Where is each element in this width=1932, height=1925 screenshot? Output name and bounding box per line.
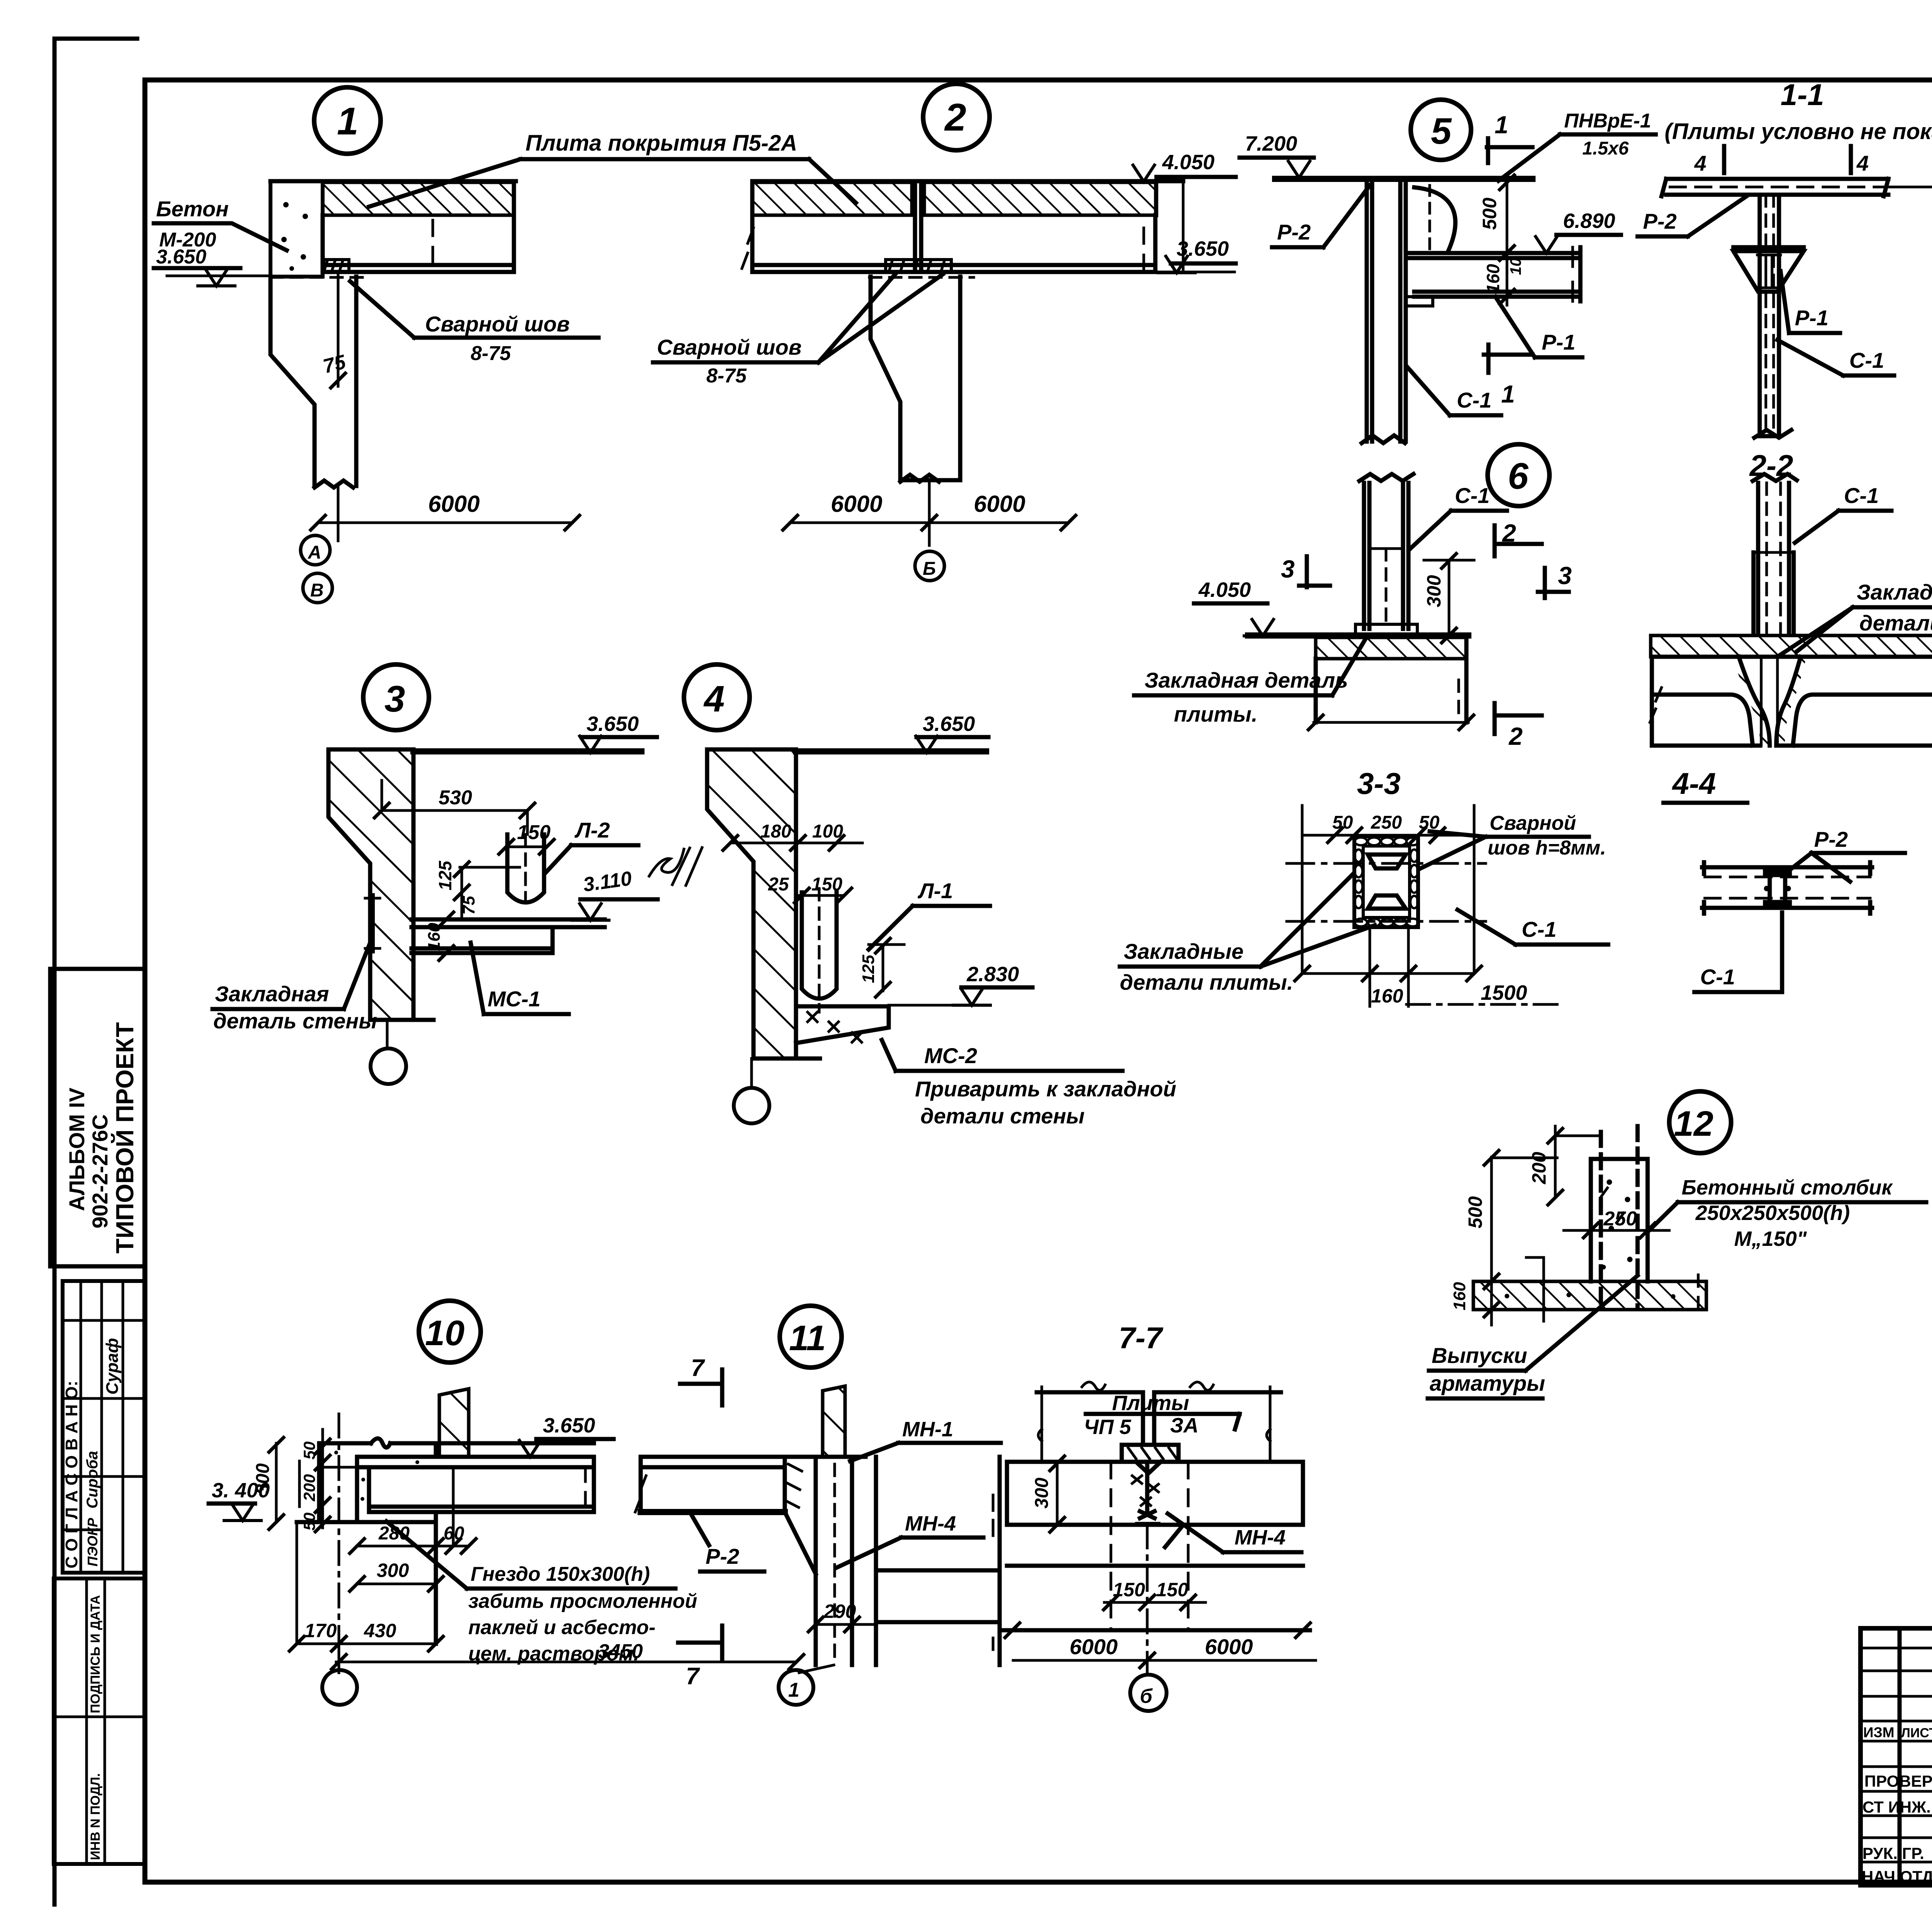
- svg-text:3.650: 3.650: [543, 1414, 595, 1437]
- section 2-2: [1650, 449, 1932, 746]
- svg-text:180: 180: [760, 821, 791, 842]
- extension lines and centerlines: [1302, 805, 1474, 974]
- svg-text:1500: 1500: [1481, 981, 1527, 1004]
- svg-text:160: 160: [425, 923, 444, 951]
- svg-text:АЛЬБОМ IV: АЛЬБОМ IV: [65, 1087, 89, 1211]
- embedded plate on wall face: [369, 896, 375, 950]
- dim 530: [382, 780, 527, 834]
- precast slabs with joint: [1652, 657, 1932, 746]
- slab of detail 1 (hatched): [323, 182, 514, 215]
- section mark 1 lower: [1484, 345, 1532, 373]
- I-beam section at joint: [1765, 869, 1790, 907]
- dim 150: [506, 846, 547, 848]
- column C-1: [1362, 179, 1406, 443]
- svg-text:М„150": М„150": [1734, 1227, 1807, 1250]
- detail circle 3: [363, 664, 429, 730]
- bearing plate: [886, 260, 951, 272]
- svg-text:паклей и асбесто-: паклей и асбесто-: [468, 1616, 655, 1639]
- axis circle left: [338, 1414, 340, 1670]
- svg-text:500: 500: [1464, 1196, 1486, 1228]
- axis circle В: [303, 573, 332, 603]
- svg-text:3: 3: [384, 678, 405, 720]
- svg-text:6000: 6000: [974, 491, 1025, 517]
- svg-text:Закладная деталь: Закладная деталь: [1145, 668, 1348, 692]
- svg-text:4.050: 4.050: [1162, 151, 1214, 174]
- column shoe Р-1 trapezoid: [1733, 251, 1804, 292]
- svg-text:Закладная: Закладная: [215, 982, 329, 1006]
- dim 300: [1424, 560, 1474, 635]
- column С-1: [1359, 474, 1413, 629]
- detail 3: channel at wall, slab support: [213, 664, 702, 1084]
- svg-text:арматуры: арматуры: [1430, 1371, 1545, 1395]
- svg-text:С-1: С-1: [1700, 965, 1735, 989]
- dims 170 430: [297, 1522, 436, 1644]
- svg-text:7: 7: [691, 1355, 705, 1381]
- svg-text:Р-1: Р-1: [1795, 306, 1828, 330]
- svg-text:4.050: 4.050: [1198, 578, 1251, 601]
- svg-text:150: 150: [1156, 1579, 1189, 1600]
- axis circle Б: [915, 551, 944, 581]
- svg-text:ПОДПИСЬ И ДАТА: ПОДПИСЬ И ДАТА: [88, 1595, 103, 1713]
- svg-text:3450: 3450: [598, 1640, 643, 1663]
- section 1-1: [1638, 78, 1932, 438]
- svg-text:Закладные: Закладные: [1124, 939, 1243, 963]
- svg-text:1.5х6: 1.5х6: [1582, 138, 1629, 159]
- svg-text:50: 50: [300, 1441, 318, 1459]
- svg-text:75: 75: [459, 896, 478, 915]
- dim stack 50 200 50: [299, 1429, 323, 1528]
- svg-text:деталь стены: деталь стены: [213, 1009, 377, 1033]
- dim 6000: [318, 486, 572, 541]
- svg-text:Сироба: Сироба: [84, 1451, 101, 1509]
- svg-text:1: 1: [337, 100, 359, 143]
- I-beam web on column top: [915, 181, 921, 270]
- slab top line: [1275, 176, 1532, 182]
- column С-1: [1753, 474, 1797, 634]
- detail 12: concrete post: [1428, 1091, 1926, 1398]
- left sidebar: bottom table: [54, 1578, 145, 1864]
- svg-text:забить просмоленной: забить просмоленной: [468, 1590, 697, 1612]
- svg-text:Л-1: Л-1: [917, 878, 953, 903]
- column C-1 dashed: [1754, 195, 1791, 438]
- concrete wall with taper: [328, 749, 413, 1020]
- svg-text:3: 3: [1281, 555, 1295, 583]
- svg-text:300: 300: [1032, 1478, 1052, 1509]
- dim 3450: [336, 1644, 796, 1673]
- section 4-4: slab joint with beam: [1663, 766, 1905, 992]
- svg-text:500: 500: [1479, 197, 1500, 230]
- svg-text:160: 160: [1450, 1282, 1469, 1310]
- lower slab bands: [1001, 1566, 1310, 1630]
- svg-text:Бетон: Бетон: [156, 197, 229, 221]
- svg-text:2.830: 2.830: [966, 963, 1019, 986]
- section mark 3 right: [1538, 568, 1569, 598]
- svg-text:25: 25: [768, 874, 789, 895]
- left slab: [752, 182, 912, 215]
- svg-text:МН-1: МН-1: [902, 1418, 953, 1441]
- svg-text:(Плиты условно не показаны): (Плиты условно не показаны): [1665, 119, 1932, 144]
- svg-text:2: 2: [944, 96, 966, 139]
- dims 125 75: [460, 867, 520, 919]
- vertical ext lines with breaks: [1038, 1387, 1270, 1462]
- svg-text:Сварной шов: Сварной шов: [425, 312, 570, 336]
- svg-text:6.890: 6.890: [1563, 209, 1615, 233]
- svg-text:РУК. ГР.: РУК. ГР.: [1862, 1844, 1924, 1862]
- slab line continues to level mark: [1888, 186, 1932, 189]
- svg-text:50: 50: [1332, 812, 1353, 833]
- svg-text:7-7: 7-7: [1119, 1321, 1163, 1355]
- svg-text:290: 290: [823, 1600, 856, 1622]
- svg-text:7: 7: [686, 1663, 700, 1690]
- svg-text:6000: 6000: [831, 491, 882, 517]
- svg-text:ПЭОКР: ПЭОКР: [85, 1517, 100, 1567]
- svg-text:3.650: 3.650: [923, 712, 975, 736]
- svg-text:МН-4: МН-4: [1235, 1526, 1286, 1549]
- svg-text:А: А: [308, 542, 321, 563]
- detail circle 10: [419, 1301, 481, 1363]
- svg-text:детали плиты.: детали плиты.: [1859, 611, 1932, 635]
- svg-text:200: 200: [300, 1474, 318, 1502]
- slab band: [1662, 179, 1888, 196]
- anchor МН-4 with welds: [1137, 1462, 1158, 1524]
- svg-text:СТ ИНЖ.: СТ ИНЖ.: [1862, 1798, 1931, 1816]
- dim 160: [438, 911, 455, 928]
- detail circle 4: [684, 664, 750, 730]
- svg-text:1: 1: [1501, 380, 1515, 408]
- svg-text:5: 5: [1431, 110, 1452, 152]
- section 3-3: embedded plate plan: [1120, 766, 1608, 1007]
- svg-text:6000: 6000: [1070, 1634, 1118, 1659]
- svg-text:11: 11: [789, 1318, 826, 1358]
- svg-text:Сварной шов: Сварной шов: [657, 335, 802, 359]
- floor line and slab: [1248, 632, 1468, 639]
- svg-text:плиты.: плиты.: [1174, 702, 1257, 726]
- dim 200: [1555, 1126, 1600, 1198]
- svg-text:300: 300: [1423, 575, 1445, 607]
- svg-text:Плита покрытия П5-2А: Плита покрытия П5-2А: [526, 131, 797, 156]
- svg-text:3: 3: [1558, 562, 1572, 590]
- svg-text:С-1: С-1: [1455, 483, 1490, 508]
- bearing plate weld: [324, 260, 349, 272]
- detail circle 5: [1411, 100, 1471, 160]
- svg-text:Выпуски: Выпуски: [1432, 1343, 1527, 1368]
- dim 50 250 50: [1302, 834, 1474, 837]
- svg-text:6000: 6000: [428, 491, 480, 517]
- svg-text:ПРОВЕР: ПРОВЕР: [1864, 1772, 1932, 1790]
- svg-text:4-4: 4-4: [1672, 766, 1716, 800]
- foundation slab hatched: [1473, 1281, 1706, 1310]
- bottom dim 160: [1302, 927, 1474, 1006]
- svg-text:Б: Б: [923, 559, 936, 579]
- svg-text:4: 4: [703, 678, 724, 720]
- dim 6000 6000: [790, 480, 1068, 545]
- shelf МС-2: [796, 1006, 889, 1043]
- svg-text:430: 430: [364, 1620, 396, 1641]
- svg-text:ЗА: ЗА: [1170, 1414, 1199, 1437]
- dim 500: [1492, 1157, 1557, 1281]
- bottom wall line: [297, 1512, 436, 1644]
- svg-text:ПНВрЕ-1: ПНВрЕ-1: [1564, 110, 1651, 132]
- svg-text:МС-1: МС-1: [488, 987, 541, 1011]
- dim 290: [816, 1623, 874, 1626]
- svg-text:125: 125: [859, 955, 878, 983]
- top wall line with break: [319, 1439, 594, 1448]
- svg-text:4: 4: [1856, 151, 1869, 175]
- detail 1: slab on concrete wall: [154, 87, 856, 603]
- svg-text:ЧП 5: ЧП 5: [1084, 1415, 1131, 1439]
- detail circle 2: [923, 84, 990, 150]
- svg-text:В: В: [310, 580, 324, 601]
- svg-text:1-1: 1-1: [1781, 78, 1824, 112]
- dim 300: [1056, 1462, 1059, 1525]
- detail 4: channel in wall with shelf МС-2: [684, 664, 1176, 1128]
- svg-text:Р-2: Р-2: [1814, 827, 1848, 851]
- svg-text:НАЧ.ОТД: НАЧ.ОТД: [1862, 1867, 1932, 1886]
- svg-text:3.650: 3.650: [587, 712, 639, 736]
- dim 125: [869, 945, 904, 991]
- slab band: [1702, 862, 1872, 914]
- svg-text:С О Г Л А С О В А Н О:: С О Г Л А С О В А Н О:: [62, 1381, 81, 1568]
- rebar outlets: [1601, 1126, 1638, 1308]
- socket verticals: [319, 1443, 436, 1522]
- hatched pier above: [823, 1386, 845, 1457]
- bracket ПНВрЕ-1 curve: [1414, 187, 1455, 251]
- detail 6: column base on slab: [1134, 444, 1572, 750]
- dim 160: [1483, 1301, 1500, 1318]
- svg-text:250: 250: [1371, 812, 1402, 833]
- svg-text:шов h=8мм.: шов h=8мм.: [1488, 837, 1606, 859]
- channel Л-1: [802, 892, 837, 999]
- svg-text:170: 170: [304, 1620, 337, 1641]
- top slab edges: [1037, 1392, 1281, 1445]
- dim 500 / 160: [1492, 182, 1530, 305]
- svg-text:ИНВ N ПОДЛ.: ИНВ N ПОДЛ.: [88, 1773, 103, 1860]
- concrete wall with taper: [707, 749, 796, 1058]
- detail 2: slabs on middle column: [653, 84, 1236, 581]
- svg-text:530: 530: [439, 787, 472, 809]
- column below detail 2: [871, 277, 960, 482]
- svg-text:ТИПОВОЙ ПРОЕКТ: ТИПОВОЙ ПРОЕКТ: [111, 1022, 139, 1254]
- svg-text:Закладные: Закладные: [1857, 580, 1932, 604]
- svg-text:Сварной: Сварной: [1490, 812, 1576, 834]
- svg-text:1: 1: [788, 1679, 799, 1701]
- svg-text:Сураф: Сураф: [103, 1338, 122, 1395]
- I-beam flanges in plan: [1368, 855, 1406, 909]
- svg-text:7.200: 7.200: [1245, 132, 1297, 155]
- concrete wall top: [270, 181, 323, 277]
- svg-text:6000: 6000: [1205, 1634, 1253, 1659]
- main slab body: [1007, 1462, 1303, 1525]
- svg-text:2: 2: [1509, 722, 1523, 750]
- detail 11: beam on console МН-4: [635, 1306, 1001, 1705]
- detail circle 12: [1669, 1091, 1731, 1153]
- sheet margin line: [54, 39, 137, 1905]
- title block (штамп): [1861, 1628, 1932, 1925]
- svg-text:160: 160: [1483, 264, 1503, 294]
- svg-text:ИЗМ: ИЗМ: [1863, 1725, 1895, 1740]
- correction scribble: [649, 848, 702, 885]
- slab top screed (hatched): [1651, 635, 1932, 657]
- svg-text:Гнездо 150х300(h): Гнездо 150х300(h): [471, 1563, 650, 1585]
- dim 300 left: [275, 1443, 278, 1522]
- svg-text:Р-1: Р-1: [1542, 330, 1575, 354]
- svg-text:Приварить к закладной: Приварить к закладной: [915, 1077, 1176, 1101]
- axis circle А: [301, 535, 330, 565]
- detail circle 6: [1488, 444, 1549, 506]
- svg-text:125: 125: [435, 860, 455, 890]
- base plate: [1355, 624, 1417, 635]
- hatched pier above: [439, 1389, 469, 1457]
- svg-text:902-2-276С: 902-2-276С: [88, 1114, 112, 1228]
- svg-text:Р-2: Р-2: [1643, 209, 1677, 233]
- svg-text:С-1: С-1: [1457, 388, 1492, 412]
- svg-text:Бетонный столбик: Бетонный столбик: [1682, 1176, 1893, 1199]
- dim 250: [1564, 1229, 1669, 1232]
- left sidebar: СОГЛАСОВАНО table: [62, 1281, 145, 1573]
- svg-text:4: 4: [1694, 151, 1706, 175]
- svg-text:8-75: 8-75: [471, 342, 511, 365]
- svg-text:250: 250: [1603, 1208, 1637, 1230]
- svg-text:300: 300: [377, 1560, 409, 1581]
- svg-text:10: 10: [1507, 258, 1524, 275]
- post: [1591, 1159, 1648, 1281]
- axis circle: [750, 1058, 753, 1086]
- bearing plate: [1122, 1445, 1179, 1462]
- slab band: [357, 1457, 594, 1467]
- axis to circle 1: [799, 1665, 834, 1673]
- plate with weld bead: [1354, 836, 1418, 927]
- slab and beam МС-1: [412, 919, 605, 953]
- svg-text:8-75: 8-75: [706, 365, 747, 387]
- dim 300: [357, 1583, 436, 1585]
- svg-text:3.650: 3.650: [156, 246, 206, 268]
- svg-text:Р-2: Р-2: [706, 1544, 739, 1568]
- svg-text:ЛИСТ: ЛИСТ: [1901, 1726, 1932, 1740]
- svg-text:6: 6: [1508, 455, 1529, 497]
- svg-text:Л-2: Л-2: [574, 818, 610, 842]
- detail 10: beam socket in wall: [209, 1301, 805, 1705]
- detail circle 1: [314, 87, 381, 154]
- svg-text:детали стены: детали стены: [920, 1104, 1085, 1128]
- svg-text:10: 10: [425, 1313, 464, 1353]
- svg-text:б: б: [1140, 1685, 1153, 1708]
- svg-text:3-3: 3-3: [1357, 766, 1401, 800]
- svg-text:250х250х500(h): 250х250х500(h): [1695, 1201, 1850, 1225]
- section mark 7 lower: [678, 1626, 722, 1661]
- svg-text:С-1: С-1: [1522, 917, 1556, 941]
- svg-text:МС-2: МС-2: [924, 1043, 977, 1068]
- svg-text:Р-2: Р-2: [1277, 220, 1311, 244]
- right slab: [924, 182, 1156, 215]
- axis circle б: [1146, 1525, 1149, 1674]
- left sidebar: ТИПОВОЙ ПРОЕКТ box: [50, 969, 145, 1266]
- channel Л-2: [507, 834, 544, 902]
- svg-text:12: 12: [1674, 1104, 1713, 1143]
- beam: [369, 1457, 594, 1512]
- dim line bottom: [1314, 721, 1468, 724]
- dotted fill of socket walls: [361, 1478, 365, 1482]
- column below detail 1: [270, 277, 356, 488]
- svg-text:160: 160: [1371, 985, 1403, 1007]
- svg-text:Плиты: Плиты: [1112, 1392, 1189, 1415]
- svg-text:С-1: С-1: [1849, 348, 1884, 372]
- section 7-7: plan of slabs at console: [1001, 1321, 1316, 1711]
- detail circle 11: [780, 1306, 842, 1368]
- beam Р-1: [1408, 247, 1580, 301]
- dims 280 60: [357, 1545, 469, 1548]
- right adjacent structure: [876, 1457, 1000, 1665]
- axis circle: [386, 1020, 389, 1048]
- svg-text:3. 400: 3. 400: [212, 1479, 270, 1502]
- svg-text:С-1: С-1: [1844, 483, 1879, 508]
- section mark 2 lower: [1495, 703, 1542, 734]
- detail 5: beam to column joint: [1240, 100, 1656, 443]
- svg-text:МН-4: МН-4: [905, 1512, 956, 1535]
- dim 75: [337, 272, 340, 386]
- slab and beam: [641, 1457, 785, 1467]
- svg-text:1: 1: [1495, 111, 1509, 139]
- svg-text:детали плиты.: детали плиты.: [1120, 970, 1293, 994]
- console column: [785, 1457, 866, 1665]
